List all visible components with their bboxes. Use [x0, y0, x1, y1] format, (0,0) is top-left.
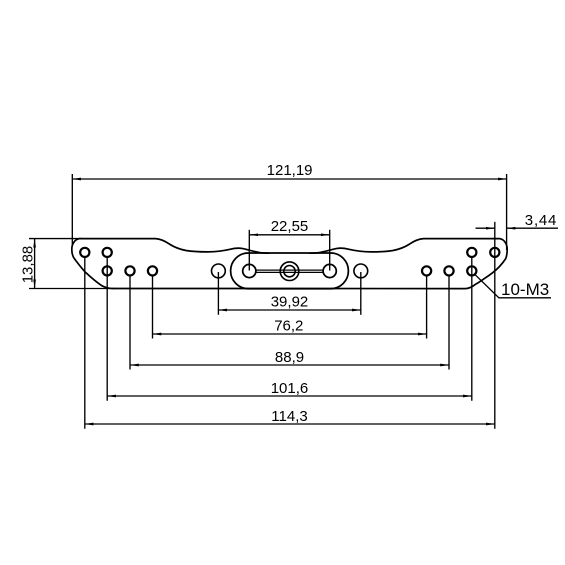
- dim 121,19 line: [72, 178, 506, 180]
- mid hole right: [354, 264, 368, 278]
- dim 22,55 line: [249, 234, 329, 236]
- svg-text:88,9: 88,9: [275, 349, 304, 366]
- dim 39,92 extension line left: [217, 272, 219, 315]
- dim 39,92 extension line right: [360, 272, 362, 315]
- dim 13,88 extension line top: [29, 238, 82, 240]
- leader 10-M3: [474, 274, 551, 298]
- small hole lower row left 1: [103, 266, 112, 275]
- small hole upper row right 2: [467, 248, 476, 257]
- small hole lower row right 1: [467, 266, 476, 275]
- dim 3,44 left arrow shaft: [476, 227, 495, 229]
- small hole lower row right 2: [444, 266, 453, 275]
- dim 114,3 extension line left: [84, 257, 86, 429]
- part top edge S-curve right: [310, 239, 424, 254]
- dim 13,88 line: [34, 239, 36, 288]
- part top edge S-curve left: [156, 239, 270, 254]
- center obround boss: [231, 253, 349, 289]
- dim 13,88 extension line bottom: [29, 288, 116, 290]
- dim 121,19 extension line left: [71, 174, 73, 245]
- svg-text:101,6: 101,6: [271, 380, 309, 397]
- dim 39,92 line: [218, 309, 360, 311]
- svg-text:39,92: 39,92: [271, 293, 309, 310]
- svg-text:121,19: 121,19: [267, 162, 313, 179]
- dim 22,55 extension line right: [329, 230, 331, 271]
- slot line lower: [256, 271, 324, 273]
- center outer circle: [280, 262, 299, 281]
- slot line upper: [256, 269, 324, 271]
- dim 121,19 extension line right: [506, 174, 508, 250]
- mid hole left: [212, 264, 226, 278]
- svg-text:3,44: 3,44: [525, 212, 557, 229]
- dim 22,55 extension line left: [248, 230, 250, 271]
- obround hole right: [323, 264, 336, 277]
- part outline right end: [290, 239, 507, 289]
- center inner circle: [284, 266, 295, 277]
- dim 88,9 extension line right: [448, 276, 450, 370]
- dim 88,9 extension line left: [129, 276, 131, 370]
- obround hole left: [243, 264, 256, 277]
- dim 114,3 extension line right: [494, 259, 496, 429]
- dim 88,9 line: [130, 364, 449, 366]
- svg-text:10-M3: 10-M3: [501, 280, 549, 299]
- small hole upper row left 2: [103, 248, 112, 257]
- svg-text:13,88: 13,88: [19, 246, 36, 284]
- dim 76,2 line: [153, 333, 427, 335]
- part outline left end: [72, 239, 290, 289]
- small hole lower row left 2: [125, 266, 134, 275]
- small hole lower row left 3: [148, 266, 157, 275]
- dim 76,2 extension line left: [152, 276, 154, 339]
- small hole lower row right 3: [422, 266, 431, 275]
- small hole upper row far left: [80, 248, 89, 257]
- dim 101,6 line: [107, 395, 472, 397]
- dim 101,6 extension line left: [106, 257, 108, 401]
- dim 3,44 right arrow shaft: [507, 227, 558, 229]
- dim 114,3 line: [85, 423, 495, 425]
- dim 3,44 extension line: [494, 222, 496, 259]
- dim 101,6 extension line right: [471, 257, 473, 401]
- dim 76,2 extension line right: [426, 276, 428, 339]
- svg-text:22,55: 22,55: [271, 218, 309, 235]
- svg-text:76,2: 76,2: [274, 317, 303, 334]
- small hole upper row far right: [490, 248, 499, 257]
- svg-text:114,3: 114,3: [271, 408, 307, 425]
